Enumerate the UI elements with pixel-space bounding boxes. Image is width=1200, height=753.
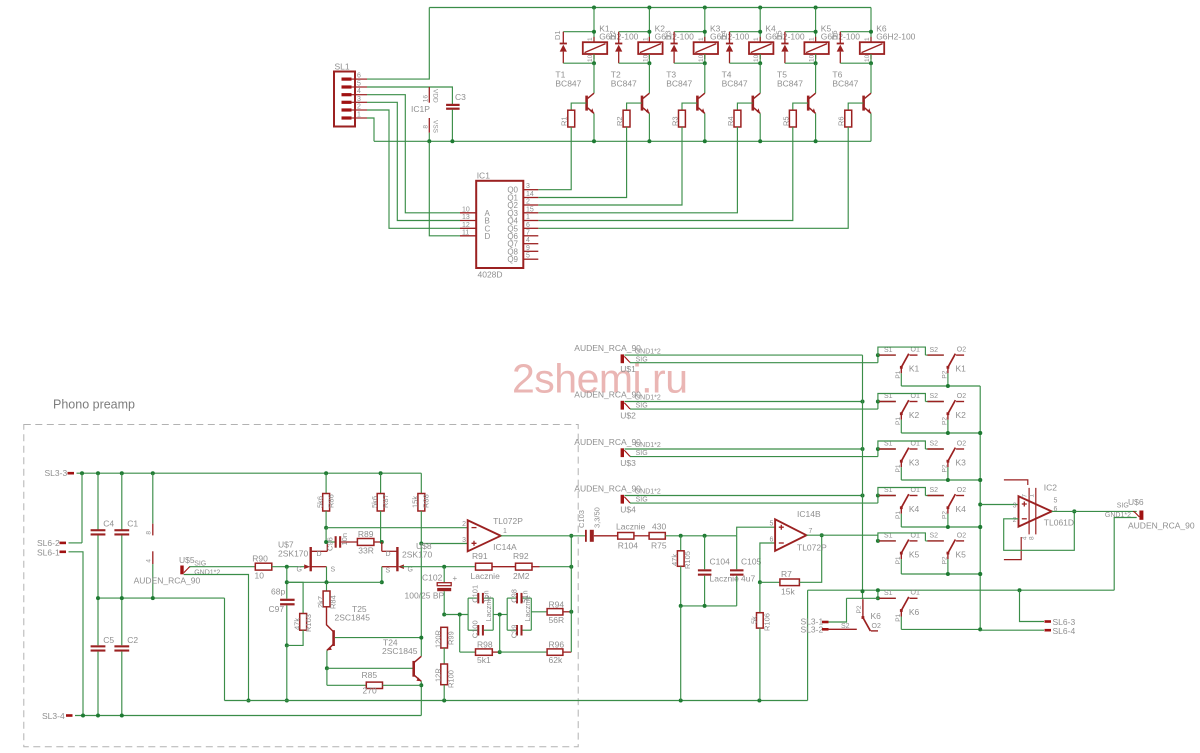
resistor R87 <box>380 473 382 493</box>
svg-text:AUDEN_RCA_90: AUDEN_RCA_90 <box>574 390 641 400</box>
bus vertical GND1*2 <box>862 355 864 591</box>
resistor R86 <box>325 473 327 493</box>
svg-text:D: D <box>317 551 322 558</box>
resistor R103 <box>287 582 303 613</box>
relay K6 coil <box>860 42 884 54</box>
IC IC1 4028D <box>476 181 523 268</box>
wire U$3 GND to bus <box>625 448 863 450</box>
svg-text:K6: K6 <box>909 607 920 617</box>
svg-text:IC2: IC2 <box>1044 483 1058 493</box>
IC1 output pin Q1 (14) <box>523 197 538 199</box>
wire K6 coil pin10 to T6 collector <box>870 54 872 63</box>
wire relay K1 coil pin1 <box>593 8 595 43</box>
wire U$1 GND to bus <box>625 354 863 356</box>
svg-text:P2: P2 <box>856 605 863 613</box>
svg-text:U$6: U$6 <box>1128 497 1144 507</box>
svg-text:5k: 5k <box>749 616 758 624</box>
svg-text:O1: O1 <box>911 590 920 597</box>
resistor R89 <box>341 541 357 543</box>
capacitor C2 <box>114 645 129 647</box>
svg-text:2SC1845: 2SC1845 <box>335 613 371 623</box>
capacitor C104 <box>704 536 706 570</box>
resistor R84 <box>326 582 328 591</box>
svg-text:6: 6 <box>526 222 530 229</box>
svg-text:10n: 10n <box>340 533 349 546</box>
wire U$3 SIG to S1 <box>630 456 878 458</box>
svg-text:R84: R84 <box>329 595 338 609</box>
svg-text:U$3: U$3 <box>620 458 636 468</box>
relay K5 coil <box>804 42 828 54</box>
svg-text:5: 5 <box>1054 498 1058 505</box>
wire U$2 GND to bus <box>625 401 863 403</box>
junction top rail K4 <box>758 6 762 10</box>
wire T5 emitter to GND <box>815 113 817 141</box>
svg-text:33R: 33R <box>358 546 374 556</box>
svg-text:S1: S1 <box>884 590 893 597</box>
svg-text:SL3-4: SL3-4 <box>42 711 65 721</box>
resistor R75 <box>649 533 665 540</box>
wire S1-S2 bridge K5 <box>878 533 926 541</box>
wire U$4 GND to bus <box>625 495 863 497</box>
svg-text:D3: D3 <box>664 30 673 40</box>
svg-text:R96: R96 <box>549 640 565 650</box>
svg-text:R2: R2 <box>615 116 624 126</box>
capacitor C5 <box>91 645 106 647</box>
svg-text:AUDEN_RCA_90: AUDEN_RCA_90 <box>1128 521 1195 531</box>
SL1 pin 5 <box>342 85 352 88</box>
svg-text:Phono preamp: Phono preamp <box>53 398 135 412</box>
svg-text:S2: S2 <box>930 393 939 400</box>
capacitor C1 <box>121 473 123 530</box>
svg-text:C96: C96 <box>326 537 335 551</box>
svg-text:S: S <box>331 567 336 574</box>
relay contact K6 S2/O2 mirrored <box>829 628 857 630</box>
svg-text:C102: C102 <box>422 573 443 583</box>
wire IC14B output to K5 <box>806 534 878 536</box>
svg-text:C4: C4 <box>103 519 114 529</box>
svg-text:R103: R103 <box>304 614 313 632</box>
svg-text:S1: S1 <box>884 347 893 354</box>
resistor R4 <box>737 103 752 110</box>
svg-text:2SK170: 2SK170 <box>278 549 309 559</box>
svg-text:13: 13 <box>462 214 470 221</box>
wire riser to gnd <box>680 606 682 701</box>
capacitor C3 <box>446 104 460 106</box>
svg-text:+: + <box>453 574 458 583</box>
svg-text:SL1: SL1 <box>335 62 350 72</box>
diode D6 <box>840 31 871 33</box>
resistor R7 <box>760 581 780 583</box>
op-amp IC14A TL072P <box>468 520 501 551</box>
svg-text:S1: S1 <box>884 441 893 448</box>
svg-text:R7: R7 <box>781 569 792 579</box>
wire relay K5 coil pin1 <box>815 8 817 43</box>
capacitor C102 <box>443 567 445 583</box>
wire source row <box>287 581 382 583</box>
capacitor C4 <box>97 473 99 530</box>
svg-text:C1: C1 <box>127 519 138 529</box>
svg-text:K3: K3 <box>956 458 967 468</box>
svg-text:7: 7 <box>1022 494 1029 498</box>
svg-text:9: 9 <box>526 245 530 252</box>
wire gnd mid horizontal <box>225 700 808 702</box>
svg-text:R90: R90 <box>252 554 268 564</box>
resistor R88 <box>420 473 422 493</box>
svg-text:C105: C105 <box>741 557 762 567</box>
wire S1-S2 bridge K4 <box>878 488 926 496</box>
svg-text:SL3-3: SL3-3 <box>45 468 68 478</box>
svg-text:R75: R75 <box>651 541 667 551</box>
wire K5 pivots join <box>901 573 980 575</box>
svg-text:4028D: 4028D <box>478 270 503 280</box>
svg-text:GND1*2: GND1*2 <box>635 395 661 402</box>
svg-text:Lacznie: Lacznie <box>523 596 532 622</box>
wire VCC to SL1 pin6 <box>367 8 429 80</box>
wire IC2 output <box>1052 510 1137 512</box>
svg-text:2: 2 <box>357 104 361 111</box>
svg-text:11: 11 <box>462 229 469 236</box>
capacitor C99 <box>506 598 508 630</box>
svg-text:R100: R100 <box>446 670 455 688</box>
svg-text:7: 7 <box>809 528 813 535</box>
resistor R94 <box>531 611 547 613</box>
IC1 output pin Q8 (9) <box>523 250 538 252</box>
wire IC14B minus input <box>760 543 775 582</box>
relay contact K6 S1/O1 <box>847 597 896 599</box>
IC1 output pin Q0 (3) <box>523 189 538 191</box>
svg-text:S2: S2 <box>930 347 939 354</box>
svg-text:U$1: U$1 <box>620 364 636 374</box>
junction top rail K3 <box>703 6 707 10</box>
svg-text:P2: P2 <box>942 370 949 378</box>
svg-text:R87: R87 <box>381 494 390 508</box>
svg-text:10: 10 <box>698 54 705 62</box>
svg-text:U$5: U$5 <box>179 555 195 565</box>
wire to K6 S1 jog <box>877 591 879 598</box>
junction top rail K5 <box>814 6 818 10</box>
diode D1 <box>563 31 594 33</box>
svg-text:C100: C100 <box>470 620 479 638</box>
svg-text:3: 3 <box>462 537 466 544</box>
transistor T24 2SC1845 <box>412 661 415 677</box>
bus vertical right to IC2 <box>979 386 981 629</box>
SL1 pin 3 <box>342 101 352 104</box>
svg-text:AUDEN_RCA_90: AUDEN_RCA_90 <box>134 576 201 586</box>
resistor R90 <box>255 563 271 570</box>
svg-text:SL3-2: SL3-2 <box>801 625 824 635</box>
transistor T4 <box>754 93 760 98</box>
IC1 output pin Q3 (15) <box>523 212 538 214</box>
svg-text:2M2: 2M2 <box>513 571 530 581</box>
svg-text:270: 270 <box>363 686 377 696</box>
relay contact K3 S1/O1 <box>876 447 880 451</box>
svg-text:P1: P1 <box>895 417 902 425</box>
svg-text:K1: K1 <box>909 364 920 374</box>
wire K5 coil pin10 to T5 collector <box>815 54 817 63</box>
relay contact K4 S1/O1 <box>876 494 880 498</box>
svg-text:2: 2 <box>462 521 466 528</box>
relay contact K2 S2/O2 <box>925 401 943 403</box>
svg-text:4: 4 <box>146 559 153 563</box>
relay contact K5 S2/O2 <box>925 540 943 542</box>
capacitor C96 <box>326 541 335 543</box>
svg-text:5k6: 5k6 <box>370 496 379 508</box>
svg-text:VSS: VSS <box>432 120 439 134</box>
svg-text:S1: S1 <box>884 487 893 494</box>
svg-text:62k: 62k <box>549 655 563 665</box>
IC1 output pin Q7 (4) <box>523 243 538 245</box>
svg-text:S2: S2 <box>930 533 939 540</box>
relay K4 coil <box>749 42 773 54</box>
svg-text:3: 3 <box>357 96 361 103</box>
diode D2 <box>619 31 650 33</box>
IC1 output pin Q5 (6) <box>523 227 538 229</box>
svg-text:BC847: BC847 <box>555 79 581 89</box>
svg-text:5: 5 <box>357 81 361 88</box>
svg-text:BC847: BC847 <box>611 79 637 89</box>
svg-text:R88: R88 <box>422 494 431 508</box>
svg-text:D2: D2 <box>608 30 617 40</box>
IC1 input pin A (10) <box>460 212 476 214</box>
power symbol IC1P VDD pin 16 <box>428 87 430 103</box>
svg-text:R4: R4 <box>726 116 735 126</box>
svg-text:R1: R1 <box>560 116 569 126</box>
resistor R98 <box>459 615 461 653</box>
svg-text:10: 10 <box>864 54 871 62</box>
svg-text:S2: S2 <box>930 487 939 494</box>
svg-text:O2: O2 <box>957 440 966 447</box>
svg-text:12R: 12R <box>434 668 443 682</box>
svg-text:D6: D6 <box>830 30 839 40</box>
wire mid gnd <box>98 597 225 599</box>
svg-text:K4: K4 <box>909 504 920 514</box>
wire T6 emitter to GND <box>870 113 872 141</box>
IC1 output pin Q4 (1) <box>523 220 538 222</box>
resistor R92 <box>516 563 533 570</box>
relay contact K1 S1/O1 <box>876 353 880 357</box>
wire R4 to IC1 Q3 <box>538 127 737 213</box>
relay contact K1 S2/O2 <box>925 354 943 356</box>
svg-text:5k6: 5k6 <box>315 496 324 508</box>
wire T1 emitter to GND <box>593 113 595 141</box>
resistor R96 <box>500 651 547 653</box>
wire U$2 SIG to S1 <box>630 408 878 410</box>
wire SL6-4 <box>980 629 1044 631</box>
svg-text:3,3/50: 3,3/50 <box>592 507 601 528</box>
svg-text:2: 2 <box>526 199 530 206</box>
svg-text:S2: S2 <box>841 623 850 630</box>
svg-text:1: 1 <box>698 37 705 41</box>
wire K3 pivots join <box>901 479 980 481</box>
diode D3 <box>674 31 705 33</box>
IC1 input pin C (12) <box>460 227 476 229</box>
svg-text:1: 1 <box>864 37 871 41</box>
svg-text:R91: R91 <box>472 551 488 561</box>
svg-text:TL072P: TL072P <box>493 516 523 526</box>
svg-text:P2: P2 <box>942 417 949 425</box>
wire left vertical upper <box>81 473 83 543</box>
resistor R100 <box>441 664 448 685</box>
svg-text:P2: P2 <box>942 556 949 564</box>
wire SL3-4 rail <box>75 715 421 717</box>
U$5 shield pin 4 <box>152 551 154 564</box>
transistor T1 <box>588 93 594 98</box>
svg-text:16: 16 <box>423 95 430 103</box>
wire relay K2 coil pin1 <box>648 8 650 43</box>
svg-text:Lacznie: Lacznie <box>471 571 501 581</box>
wire K2 pivots join <box>901 432 980 434</box>
IC1 input pin D (11) <box>460 235 476 237</box>
wire to IC14A minus <box>326 527 468 529</box>
IC1 output pin Q9 (5) <box>523 258 538 260</box>
svg-text:IC1P: IC1P <box>411 104 430 114</box>
svg-text:D: D <box>485 232 491 241</box>
wire R2 to IC1 Q1 <box>538 127 626 198</box>
wire SL1 pin5 to C3/VDD <box>367 87 452 105</box>
svg-text:K6: K6 <box>871 611 882 621</box>
svg-text:6: 6 <box>769 536 773 543</box>
svg-text:8: 8 <box>146 531 153 535</box>
svg-text:6: 6 <box>357 73 361 80</box>
svg-text:K1: K1 <box>956 364 967 374</box>
svg-text:R5: R5 <box>781 116 790 126</box>
svg-text:GND1*2: GND1*2 <box>635 442 661 449</box>
svg-text:R105: R105 <box>683 551 692 569</box>
svg-text:1: 1 <box>809 37 816 41</box>
svg-text:10: 10 <box>809 54 816 62</box>
svg-text:R99: R99 <box>446 631 455 645</box>
svg-text:R104: R104 <box>618 541 639 551</box>
svg-text:2k7: 2k7 <box>316 596 325 608</box>
transistor T6 <box>865 93 871 98</box>
svg-text:GND1*2: GND1*2 <box>635 348 661 355</box>
svg-text:5: 5 <box>769 521 773 528</box>
svg-text:120R: 120R <box>434 629 443 648</box>
SL1 pin 1 <box>342 116 352 119</box>
SL1 pin 2 <box>342 108 352 111</box>
svg-text:R86: R86 <box>327 494 336 508</box>
svg-text:S2: S2 <box>930 441 939 448</box>
svg-text:C103: C103 <box>577 510 586 528</box>
svg-text:K2: K2 <box>956 410 967 420</box>
svg-text:P1: P1 <box>895 464 902 472</box>
svg-text:1: 1 <box>503 528 507 535</box>
SL1 pin 4 <box>342 93 352 96</box>
junction GND IC1P <box>427 139 431 143</box>
wire S1-S2 bridge K3 <box>878 441 926 449</box>
RCA connector U$6 <box>1139 511 1143 520</box>
svg-text:5: 5 <box>526 253 530 260</box>
svg-text:K2: K2 <box>909 410 920 420</box>
wire relay K4 coil pin1 <box>759 8 761 43</box>
wire SL1 pin1 to GND rail <box>367 118 374 141</box>
wire cap gnd row <box>681 605 737 607</box>
relay K3 coil <box>694 42 718 54</box>
svg-text:14: 14 <box>526 191 534 198</box>
svg-text:BC847: BC847 <box>722 79 748 89</box>
wire K6 pivot to bus <box>901 628 980 630</box>
svg-text:VDD: VDD <box>432 89 439 103</box>
svg-text:8: 8 <box>1029 536 1036 540</box>
svg-text:430: 430 <box>652 522 666 532</box>
svg-text:10: 10 <box>587 54 594 62</box>
wire U$6 GND <box>1114 518 1137 591</box>
wire gnd long row <box>808 589 1115 591</box>
capacitor C103 <box>585 530 587 542</box>
svg-text:100/25 BP: 100/25 BP <box>405 591 445 601</box>
svg-text:G: G <box>408 567 413 574</box>
wire S1-S2 bridge K1 <box>878 347 926 355</box>
wire R88 to T24 collector <box>420 544 422 657</box>
relay contact K2 S1/O1 <box>876 400 880 404</box>
phono preamp dashed box <box>24 425 578 747</box>
svg-text:K5: K5 <box>956 549 967 559</box>
svg-text:D4: D4 <box>719 30 728 40</box>
svg-text:15k: 15k <box>781 587 795 597</box>
wire T25 emitter to T24 base <box>327 667 414 669</box>
svg-text:1: 1 <box>1029 494 1036 498</box>
svg-text:Lacznie: Lacznie <box>484 596 493 622</box>
op-amp IC14B TL072P <box>775 519 806 551</box>
IC1 input pin B (13) <box>460 220 476 222</box>
svg-text:2SC1845: 2SC1845 <box>382 646 418 656</box>
svg-text:D: D <box>386 551 391 558</box>
wire K2 coil pin10 to T2 collector <box>648 54 650 63</box>
wire R3 to IC1 Q2 <box>538 127 682 205</box>
wire R6 to IC1 Q5 <box>538 127 848 228</box>
svg-text:TL061D: TL061D <box>1044 518 1074 528</box>
svg-text:AUDEN_RCA_90: AUDEN_RCA_90 <box>574 484 641 494</box>
svg-text:O2: O2 <box>957 393 966 400</box>
svg-text:D1: D1 <box>553 30 562 40</box>
wire R1 to IC1 Q0 <box>538 127 571 190</box>
diode D5 <box>785 31 816 33</box>
resistor R91 <box>476 563 493 570</box>
IC1 output pin Q6 (7) <box>523 235 538 237</box>
IC2 power pins <box>1004 480 1028 485</box>
resistor R5 <box>793 103 808 110</box>
wire R5 to IC1 Q4 <box>538 127 793 221</box>
svg-text:10: 10 <box>462 206 470 213</box>
wire IC14A plus <box>421 543 467 545</box>
svg-text:K3: K3 <box>909 458 920 468</box>
svg-text:7: 7 <box>526 229 530 236</box>
svg-text:P1: P1 <box>895 613 902 621</box>
svg-text:R6: R6 <box>837 116 846 126</box>
svg-text:4u7: 4u7 <box>741 574 755 584</box>
svg-text:47k: 47k <box>670 554 679 566</box>
transistor T25 2SC1845 <box>332 630 335 646</box>
junction GND C3 <box>450 139 454 143</box>
svg-text:1: 1 <box>642 37 649 41</box>
RCA connector U$5 <box>180 566 183 575</box>
svg-text:C101: C101 <box>470 585 479 603</box>
resistor R1 <box>571 103 586 110</box>
svg-text:K4: K4 <box>956 504 967 514</box>
wire T2 emitter to GND <box>648 113 650 141</box>
svg-text:G: G <box>297 567 302 574</box>
resistor R3 <box>682 103 697 110</box>
svg-text:O2: O2 <box>872 623 881 630</box>
relay K2 coil <box>638 42 662 54</box>
svg-text:SL6-1: SL6-1 <box>37 548 60 558</box>
wire IC14A output riser <box>570 536 572 652</box>
wire R75 to C104 C105 <box>665 535 736 537</box>
svg-text:R92: R92 <box>513 551 529 561</box>
capacitor C97 <box>286 567 288 599</box>
svg-text:O2: O2 <box>957 487 966 494</box>
resistor R99 <box>441 627 448 648</box>
